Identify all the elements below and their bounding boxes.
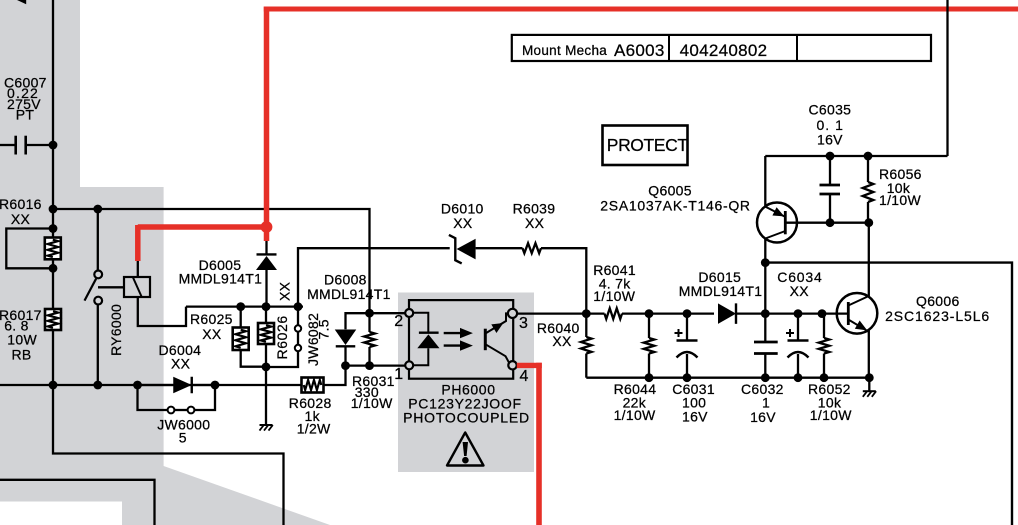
svg-text:R6016: R6016	[0, 196, 42, 212]
warning symbol	[447, 433, 484, 466]
wire bottom border corner	[0, 480, 155, 525]
resistor R6040	[585, 314, 587, 337]
jumper JW6082	[297, 307, 299, 326]
svg-text:404240802: 404240802	[680, 41, 768, 60]
resistor R6041	[586, 312, 604, 314]
diode D6005	[265, 241, 267, 254]
svg-text:MMDL914T1: MMDL914T1	[679, 283, 763, 299]
svg-text:1/10W: 1/10W	[879, 192, 921, 208]
capacitor C6031	[686, 314, 688, 341]
wire switch branch	[97, 209, 99, 271]
wire rail relay net	[186, 305, 303, 307]
junction dots	[49, 141, 58, 150]
wire lower-left corner	[53, 385, 284, 525]
wire rail R6016 net	[53, 209, 370, 313]
wire pin3 net	[517, 312, 587, 314]
label PROTECT box	[603, 126, 688, 166]
svg-text:XX: XX	[525, 215, 545, 231]
capacitor C6007	[0, 144, 15, 146]
pin 3	[508, 309, 517, 318]
wire pin1 to R6028	[324, 366, 346, 385]
ground right	[868, 378, 870, 391]
resistor R6026	[265, 307, 267, 323]
resistor R6017	[45, 309, 61, 330]
svg-text:R6025: R6025	[190, 311, 233, 327]
svg-text:2SC1623-L5L6: 2SC1623-L5L6	[885, 308, 990, 324]
svg-text:16V: 16V	[750, 409, 776, 425]
svg-text:XX: XX	[453, 215, 473, 231]
resistor R6016	[45, 238, 61, 260]
wire Q6005 through line	[764, 156, 766, 207]
svg-text:1/2W: 1/2W	[297, 420, 331, 436]
shaded region corner band	[122, 480, 155, 525]
red trace pin4 drop	[536, 363, 542, 525]
wire Q6006 base	[822, 312, 848, 314]
resistor R6031	[368, 313, 370, 332]
svg-text:RY6000: RY6000	[108, 304, 124, 356]
svg-text:D6010: D6010	[441, 201, 484, 217]
zener diode D6010	[449, 235, 462, 264]
wire relay actuator link	[98, 286, 124, 288]
svg-text:C6035: C6035	[809, 102, 852, 118]
svg-text:R6039: R6039	[513, 200, 556, 216]
shaded region left block	[0, 187, 164, 480]
red trace vertical	[264, 7, 270, 241]
shaded region photocoupler block	[398, 293, 534, 473]
resistor R6056	[867, 156, 869, 182]
svg-text:XX: XX	[202, 326, 222, 342]
wire R6039 to pin3 net	[541, 248, 586, 313]
svg-text:RB: RB	[12, 346, 32, 362]
capacitor C6034	[797, 314, 799, 341]
svg-text:XX: XX	[552, 333, 572, 349]
edge mark top-left	[17, 0, 26, 4]
svg-text:1/10W: 1/10W	[614, 407, 656, 423]
photocoupler light arrows	[444, 332, 461, 334]
transistor Q6005	[757, 203, 797, 243]
svg-text:3: 3	[519, 315, 528, 332]
pin 4	[508, 361, 516, 369]
svg-text:1: 1	[762, 395, 770, 411]
svg-text:1: 1	[394, 366, 403, 383]
svg-text:Q6006: Q6006	[916, 293, 960, 309]
svg-text:PROTECT: PROTECT	[607, 135, 689, 155]
wire switch to lower rail	[97, 305, 99, 386]
wire Q6005 base line	[786, 222, 869, 224]
svg-text:Q6005: Q6005	[648, 183, 692, 199]
table Mount Mecha	[512, 35, 931, 61]
wire red to coil stub	[137, 259, 139, 277]
svg-text:7.5: 7.5	[316, 319, 332, 339]
photocoupler PH6000 body	[409, 300, 513, 379]
wire collector node to right edge	[765, 263, 1012, 525]
photocoupler LED	[413, 313, 429, 333]
resistor R6028	[302, 378, 324, 393]
wire bottom rail right	[586, 377, 869, 379]
shaded region top-left column	[0, 0, 80, 187]
relay RY6000 coil	[124, 277, 150, 297]
shaded region diagonal wedge	[155, 466, 330, 525]
red trace to relay	[138, 224, 268, 230]
wire top-right vertical	[946, 0, 948, 156]
svg-text:MMDL914T1: MMDL914T1	[179, 270, 263, 286]
switch RY6000 contacts	[94, 271, 102, 279]
wire Q6006 emitter	[868, 331, 870, 378]
wire Q6006 collector	[868, 223, 870, 296]
diode D6015	[718, 303, 736, 324]
svg-text:5: 5	[179, 430, 187, 446]
wire ground branch	[265, 367, 267, 425]
wire pin1 net	[346, 364, 410, 366]
svg-text:2: 2	[394, 313, 403, 330]
transistor Q6006	[837, 293, 878, 334]
red trace photocoupler pin4	[517, 363, 542, 368]
red trace relay drop	[135, 225, 141, 261]
svg-text:16V: 16V	[817, 132, 843, 148]
svg-text:1/10W: 1/10W	[351, 395, 393, 411]
svg-text:XX: XX	[171, 356, 191, 372]
resistor R6016 parallel loop	[6, 229, 53, 269]
svg-text:1/10W: 1/10W	[810, 407, 852, 423]
svg-text:PHOTOCOUPLED: PHOTOCOUPLED	[403, 410, 530, 426]
shaded region below corner line	[0, 480, 155, 502]
red junction	[261, 221, 273, 233]
svg-text:A6003: A6003	[614, 41, 665, 60]
wire top feed line	[765, 155, 947, 157]
jumper JW6000	[138, 385, 168, 410]
svg-text:MMDL914T1: MMDL914T1	[307, 286, 391, 302]
ground left	[260, 424, 273, 426]
red power trace top	[264, 7, 1018, 12]
wire pin3 rail	[649, 312, 714, 314]
capacitor C6032	[764, 314, 766, 342]
svg-text:2SA1037AK-T146-QR: 2SA1037AK-T146-QR	[600, 198, 750, 214]
pin 2	[405, 309, 413, 317]
pin 1	[405, 361, 413, 369]
capacitor C6035	[829, 156, 831, 185]
resistor R6039	[523, 243, 542, 253]
svg-text:10W: 10W	[7, 332, 37, 348]
svg-text:XX: XX	[277, 281, 293, 301]
photocoupler phototransistor	[484, 329, 487, 351]
resistor R6044	[648, 314, 650, 338]
wire D6010 branch	[298, 248, 450, 306]
diode D6008	[335, 330, 357, 346]
wire coil bottom to rail	[138, 297, 186, 326]
wire D6015 to C6032 node	[765, 312, 822, 314]
svg-text:PT: PT	[16, 106, 35, 122]
svg-text:R6026: R6026	[274, 315, 290, 359]
wire main left vertical	[52, 0, 54, 385]
resistor R6025	[240, 307, 242, 328]
resistor R6052	[823, 314, 825, 338]
svg-text:4: 4	[520, 368, 529, 385]
svg-text:16V: 16V	[682, 409, 708, 425]
svg-text:XX: XX	[11, 211, 31, 227]
svg-text:1/10W: 1/10W	[593, 288, 635, 304]
svg-text:Mount Mecha: Mount Mecha	[522, 43, 607, 58]
wire bottom-left rail	[0, 384, 302, 386]
diode D6004	[138, 384, 174, 386]
wire pin2 net	[346, 313, 410, 329]
svg-text:XX: XX	[790, 283, 810, 299]
